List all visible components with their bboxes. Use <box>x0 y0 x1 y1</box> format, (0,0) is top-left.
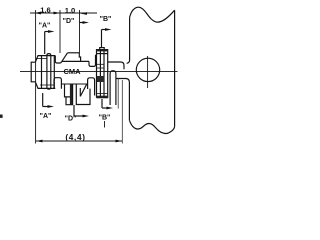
plate bottom break edge <box>129 120 174 133</box>
left end cap of fitting <box>31 62 35 82</box>
nut cap step <box>100 48 105 50</box>
svg-text:1.6: 1.6 <box>40 5 51 14</box>
dimension line top <box>30 12 97 14</box>
edge blob left margin <box>0 115 3 118</box>
bottom groove bump 1 <box>54 78 61 89</box>
stud dark bar <box>70 84 73 105</box>
top groove 2 <box>89 55 97 66</box>
nut inner h line low <box>97 93 108 95</box>
nut top band <box>97 50 108 52</box>
sleeve chamfer top left <box>36 56 38 62</box>
view arrow D top <box>80 22 84 24</box>
nut inner h line top <box>97 53 108 55</box>
bore line bottom <box>61 83 87 85</box>
pocket 2 inner wall <box>79 88 81 96</box>
centerline main axis <box>20 71 178 73</box>
svg-text:"B": "B" <box>99 115 111 122</box>
svg-text:CMA: CMA <box>63 67 81 76</box>
arrowhead dim left tip x36 <box>34 12 41 15</box>
svg-text:"A": "A" <box>40 113 52 120</box>
plate top break edge <box>130 7 175 22</box>
plate left edge <box>127 17 130 63</box>
tick below label B bottom <box>104 121 106 128</box>
stud foot <box>66 84 73 105</box>
nut hatched insert <box>97 76 104 82</box>
view arrow A bottom <box>42 93 44 107</box>
diagonal bottom <box>80 84 87 97</box>
hole circle <box>136 58 159 81</box>
extension line middle x=60 <box>59 10 61 53</box>
sleeve inner vertical right <box>53 56 55 89</box>
sleeve inner line bottom <box>40 84 54 86</box>
nut inner h line mid1 <box>97 63 105 65</box>
view arrow B bottom <box>101 99 103 108</box>
svg-text:"D": "D" <box>65 116 77 123</box>
nut inner vertical 1 <box>99 50 101 98</box>
sleeve inner vertical left <box>41 56 43 89</box>
pin vertical <box>47 54 51 90</box>
boss top <box>68 52 80 54</box>
nut inner h line mid2 <box>97 67 105 69</box>
fork inner wall <box>117 79 119 109</box>
dimension line bottom (4,4) <box>36 140 122 142</box>
bore line top <box>62 60 90 62</box>
boss right step <box>79 53 80 62</box>
top groove <box>55 56 61 63</box>
nut block outline <box>97 50 108 98</box>
view arrow D bottom <box>73 105 75 116</box>
arrowhead dim mid tip x60 <box>54 12 61 15</box>
nut inner vertical 2 <box>103 50 105 98</box>
sleeve top edge <box>38 55 56 57</box>
boss chamfer <box>62 53 68 61</box>
sleeve inner line top <box>36 58 47 60</box>
fork arch below axis <box>110 71 116 105</box>
extension line right x=122.3 <box>121 80 123 144</box>
extension line left x=35.5 <box>35 10 37 144</box>
view arrow A top <box>44 32 46 55</box>
view arrow B top <box>101 30 103 48</box>
svg-text:(4,4): (4,4) <box>65 133 85 142</box>
plate right edge <box>174 10 176 126</box>
arrowhead dim right tip x81.5 <box>81 12 88 15</box>
svg-text:"B": "B" <box>100 16 112 23</box>
hole vertical centerline <box>147 56 149 88</box>
bottom groove bump 2 <box>88 78 95 96</box>
svg-text:"A": "A" <box>39 23 51 30</box>
sleeve bottom edge <box>38 87 56 89</box>
svg-text:1.0: 1.0 <box>65 6 76 15</box>
nut bottom band <box>97 96 109 99</box>
fork lower horizontal <box>116 79 129 121</box>
extension line / leader D x=79.5 <box>79 10 81 53</box>
pocket 1 wall <box>65 84 71 97</box>
sleeve chamfer bottom left <box>36 83 38 89</box>
svg-text:"D": "D" <box>63 18 75 25</box>
pocket 2 <box>76 84 90 105</box>
right outline top <box>108 62 124 69</box>
